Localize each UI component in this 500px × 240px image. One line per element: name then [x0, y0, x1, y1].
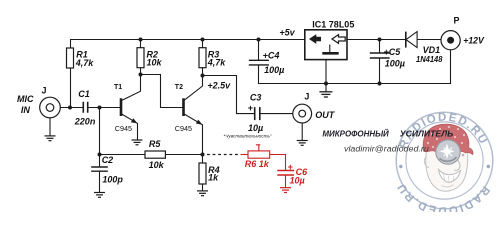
wire: ground bus C4 to power jack — [259, 50, 451, 84]
svg-text:IC1 78L05: IC1 78L05 — [312, 20, 354, 30]
lens eye patch — [436, 140, 460, 164]
junction C5 top — [378, 38, 382, 42]
svg-text:T1: T1 — [114, 84, 122, 91]
svg-text:C3: C3 — [250, 93, 262, 103]
wire: T1 collector node to T2 base — [141, 75, 184, 108]
resistor R3 — [199, 48, 206, 68]
wire: R4 leads — [202, 155, 204, 191]
svg-text:J: J — [304, 91, 309, 101]
wire red: C6 bottom lead — [285, 175, 287, 188]
OUT jack J — [293, 104, 312, 140]
wire: IC1 output to diode — [347, 39, 406, 41]
ground OUT jack — [297, 141, 308, 146]
ground T1 emitter — [132, 140, 143, 145]
wire red: R6 to C6 — [270, 155, 286, 171]
svg-text:100p: 100p — [102, 175, 123, 185]
face outline — [426, 150, 468, 191]
chin line — [442, 185, 454, 188]
svg-text:4,7k: 4,7k — [75, 58, 95, 68]
svg-text:+: + — [248, 103, 254, 113]
wire: IC1 ground lead — [325, 60, 327, 92]
capacitor C3 — [255, 107, 260, 120]
svg-text:100µ: 100µ — [385, 59, 405, 69]
right eye — [462, 154, 465, 157]
MIC input jack J — [40, 97, 61, 136]
svg-text:MIC: MIC — [17, 94, 34, 104]
svg-text:vladimir@radioded.ru: vladimir@radioded.ru — [344, 144, 429, 154]
ground IC1 — [319, 92, 332, 97]
junction R4 top node — [201, 153, 205, 157]
svg-text:T2: T2 — [175, 84, 183, 91]
wire: +5v rail from R1 top to IC1 input — [71, 40, 305, 49]
svg-text:10k: 10k — [147, 58, 163, 68]
junction C1 right / C2 branch — [98, 106, 102, 110]
IC1 78L05 regulator box — [305, 30, 347, 60]
junction R2 top — [139, 38, 143, 42]
junction R3 bottom / T2 collector — [201, 74, 205, 78]
resistor R1 — [67, 48, 74, 68]
junction C4 top — [257, 38, 261, 42]
wire: branch down to feedback node — [99, 108, 101, 155]
power jack P — [441, 31, 460, 50]
svg-text:220n: 220n — [74, 116, 96, 126]
wire: R5 right to R4 node — [165, 154, 202, 156]
svg-text:C945: C945 — [115, 124, 132, 133]
svg-text:R5: R5 — [149, 139, 161, 149]
wire: C4 top lead — [258, 40, 260, 61]
ground R4 — [197, 191, 208, 196]
resistor R2 — [137, 48, 144, 68]
wire: R3 top lead — [202, 40, 204, 48]
wire: MIC jack to C1 — [54, 107, 83, 109]
transistor T2 — [184, 76, 203, 155]
svg-text:1k: 1k — [208, 173, 219, 183]
svg-text:R6 1k: R6 1k — [245, 159, 270, 169]
svg-text:C1: C1 — [78, 89, 90, 99]
nose — [455, 159, 461, 171]
svg-text:МИКРОФОННЫЙУСИЛИТЕЛЬ: МИКРОФОННЫЙУСИЛИТЕЛЬ — [322, 128, 453, 139]
capacitor C4 — [249, 60, 269, 65]
wire: C3 to OUT jack — [260, 113, 293, 115]
junction R2 bottom / T1 collector — [139, 73, 143, 77]
svg-text:1N4148: 1N4148 — [416, 54, 443, 64]
wire: diode to power jack — [417, 39, 441, 41]
svg-text:J: J — [42, 86, 47, 96]
trimmer resistor R6 (red) — [248, 145, 270, 158]
wire red: dash end to R6 — [241, 154, 249, 156]
junction R3 top — [201, 38, 205, 42]
svg-text:+C5: +C5 — [384, 47, 402, 57]
wire: R2 top lead — [140, 40, 142, 48]
svg-text:4,7k: 4,7k — [207, 58, 227, 68]
wire: C2 leads — [99, 155, 101, 193]
svg-text:+2.5v: +2.5v — [207, 80, 231, 90]
transistor T1 — [121, 75, 141, 141]
wire: R1 bottom lead — [70, 68, 72, 108]
ground C2 — [94, 193, 105, 198]
resistor R5 — [145, 151, 165, 158]
svg-text:C2: C2 — [102, 155, 114, 165]
junction C5 bottom — [378, 82, 382, 86]
capacitor C5 — [370, 53, 390, 58]
svg-text:*Чувствительность": *Чувствительность" — [223, 133, 272, 139]
ground MIC jack — [45, 136, 56, 141]
svg-text:100µ: 100µ — [264, 65, 284, 75]
svg-text:OUT: OUT — [315, 110, 336, 120]
svg-text:+12V: +12V — [463, 35, 484, 46]
svg-text:C945: C945 — [175, 124, 192, 133]
wire: C5 bottom lead — [379, 58, 381, 83]
wire: dashed link to R6 — [207, 154, 238, 156]
svg-text:+C4: +C4 — [263, 51, 280, 61]
svg-text:10µ: 10µ — [248, 123, 263, 133]
pirate bandana — [423, 124, 473, 154]
svg-text:IN: IN — [21, 105, 31, 115]
junction R1/jack/C1 — [68, 106, 72, 110]
capacitor C2 — [91, 167, 108, 171]
wire: T2 collector node to C3 — [203, 76, 255, 114]
resistor R4 — [199, 163, 206, 184]
svg-text:10µ: 10µ — [290, 175, 305, 185]
wire: feedback node to R5 — [100, 154, 146, 156]
svg-text:+: + — [288, 162, 294, 172]
capacitor C1 — [83, 102, 87, 113]
diode VD1 — [406, 32, 417, 48]
wire: R3 bottom lead — [202, 68, 204, 76]
wire: C5 top lead — [379, 40, 381, 54]
svg-text:+5v: +5v — [279, 28, 295, 38]
wire: C1 to T1 base — [88, 107, 121, 109]
junction C2 top — [98, 153, 102, 157]
watermark radioded.ru stamp — [395, 112, 493, 217]
junction IC1 ground on bus — [324, 82, 328, 86]
grin — [439, 170, 461, 183]
capacitor C6 (red) — [277, 171, 294, 176]
ground C6 (red) — [280, 188, 291, 193]
svg-text:P: P — [454, 15, 460, 25]
ear — [424, 157, 429, 167]
wire: R2 bottom lead — [140, 68, 142, 75]
svg-text:10k: 10k — [149, 160, 165, 170]
